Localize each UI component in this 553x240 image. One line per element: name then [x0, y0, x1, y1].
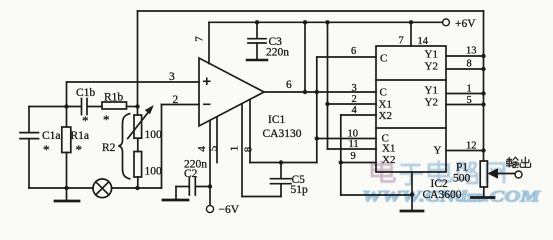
svg-text:Y2: Y2	[425, 61, 438, 73]
svg-text:C1a: C1a	[42, 130, 61, 142]
svg-text:R1b: R1b	[104, 92, 123, 104]
svg-text:2: 2	[352, 94, 357, 105]
svg-text:+6V: +6V	[455, 18, 476, 30]
svg-text:6: 6	[286, 79, 292, 91]
svg-text:*: *	[82, 113, 89, 128]
svg-text:X1: X1	[379, 99, 392, 111]
svg-text:3: 3	[169, 71, 175, 83]
svg-text:R2: R2	[102, 142, 116, 154]
svg-text:7: 7	[399, 36, 404, 47]
svg-text:10: 10	[348, 129, 359, 140]
svg-text:100: 100	[145, 166, 163, 178]
svg-text:9: 9	[351, 151, 356, 162]
svg-text:Y1: Y1	[425, 85, 438, 97]
svg-text:X2: X2	[379, 110, 392, 122]
svg-text:X2: X2	[382, 154, 395, 166]
svg-text:*: *	[76, 142, 83, 157]
svg-text:220n: 220n	[266, 47, 289, 59]
svg-text:12: 12	[466, 141, 477, 152]
svg-text:100: 100	[145, 129, 163, 141]
svg-text:11: 11	[349, 139, 359, 150]
svg-text:C: C	[380, 53, 387, 65]
svg-text:6: 6	[351, 46, 356, 57]
svg-text:*: *	[103, 112, 110, 127]
svg-text:−6V: −6V	[219, 204, 240, 216]
svg-text:1: 1	[229, 146, 241, 152]
svg-text:2: 2	[173, 94, 179, 106]
svg-text:4: 4	[352, 105, 358, 116]
svg-text:3: 3	[352, 83, 357, 94]
svg-text:5: 5	[208, 145, 220, 151]
svg-text:500: 500	[453, 173, 471, 185]
svg-text:13: 13	[466, 46, 477, 57]
svg-text:*: *	[43, 142, 50, 157]
svg-text:C: C	[380, 87, 387, 99]
svg-text:Y2: Y2	[425, 97, 438, 109]
svg-text:51p: 51p	[291, 184, 309, 196]
svg-text:C2: C2	[184, 168, 198, 180]
svg-text:8: 8	[243, 146, 255, 152]
svg-text:7: 7	[194, 36, 206, 42]
svg-text:CA3600: CA3600	[423, 189, 462, 201]
svg-text:X1: X1	[382, 143, 395, 155]
svg-text:Y1: Y1	[425, 49, 438, 61]
svg-text:C1b: C1b	[76, 87, 95, 99]
svg-text:1: 1	[467, 84, 472, 95]
svg-text:Y: Y	[434, 145, 442, 157]
svg-text:4: 4	[196, 146, 208, 152]
svg-text:CA3130: CA3130	[263, 128, 302, 140]
svg-text:5: 5	[467, 95, 472, 106]
svg-text:R1a: R1a	[71, 130, 90, 142]
svg-text:IC1: IC1	[268, 114, 286, 126]
svg-text:8: 8	[467, 59, 472, 70]
svg-text:14: 14	[418, 36, 429, 47]
